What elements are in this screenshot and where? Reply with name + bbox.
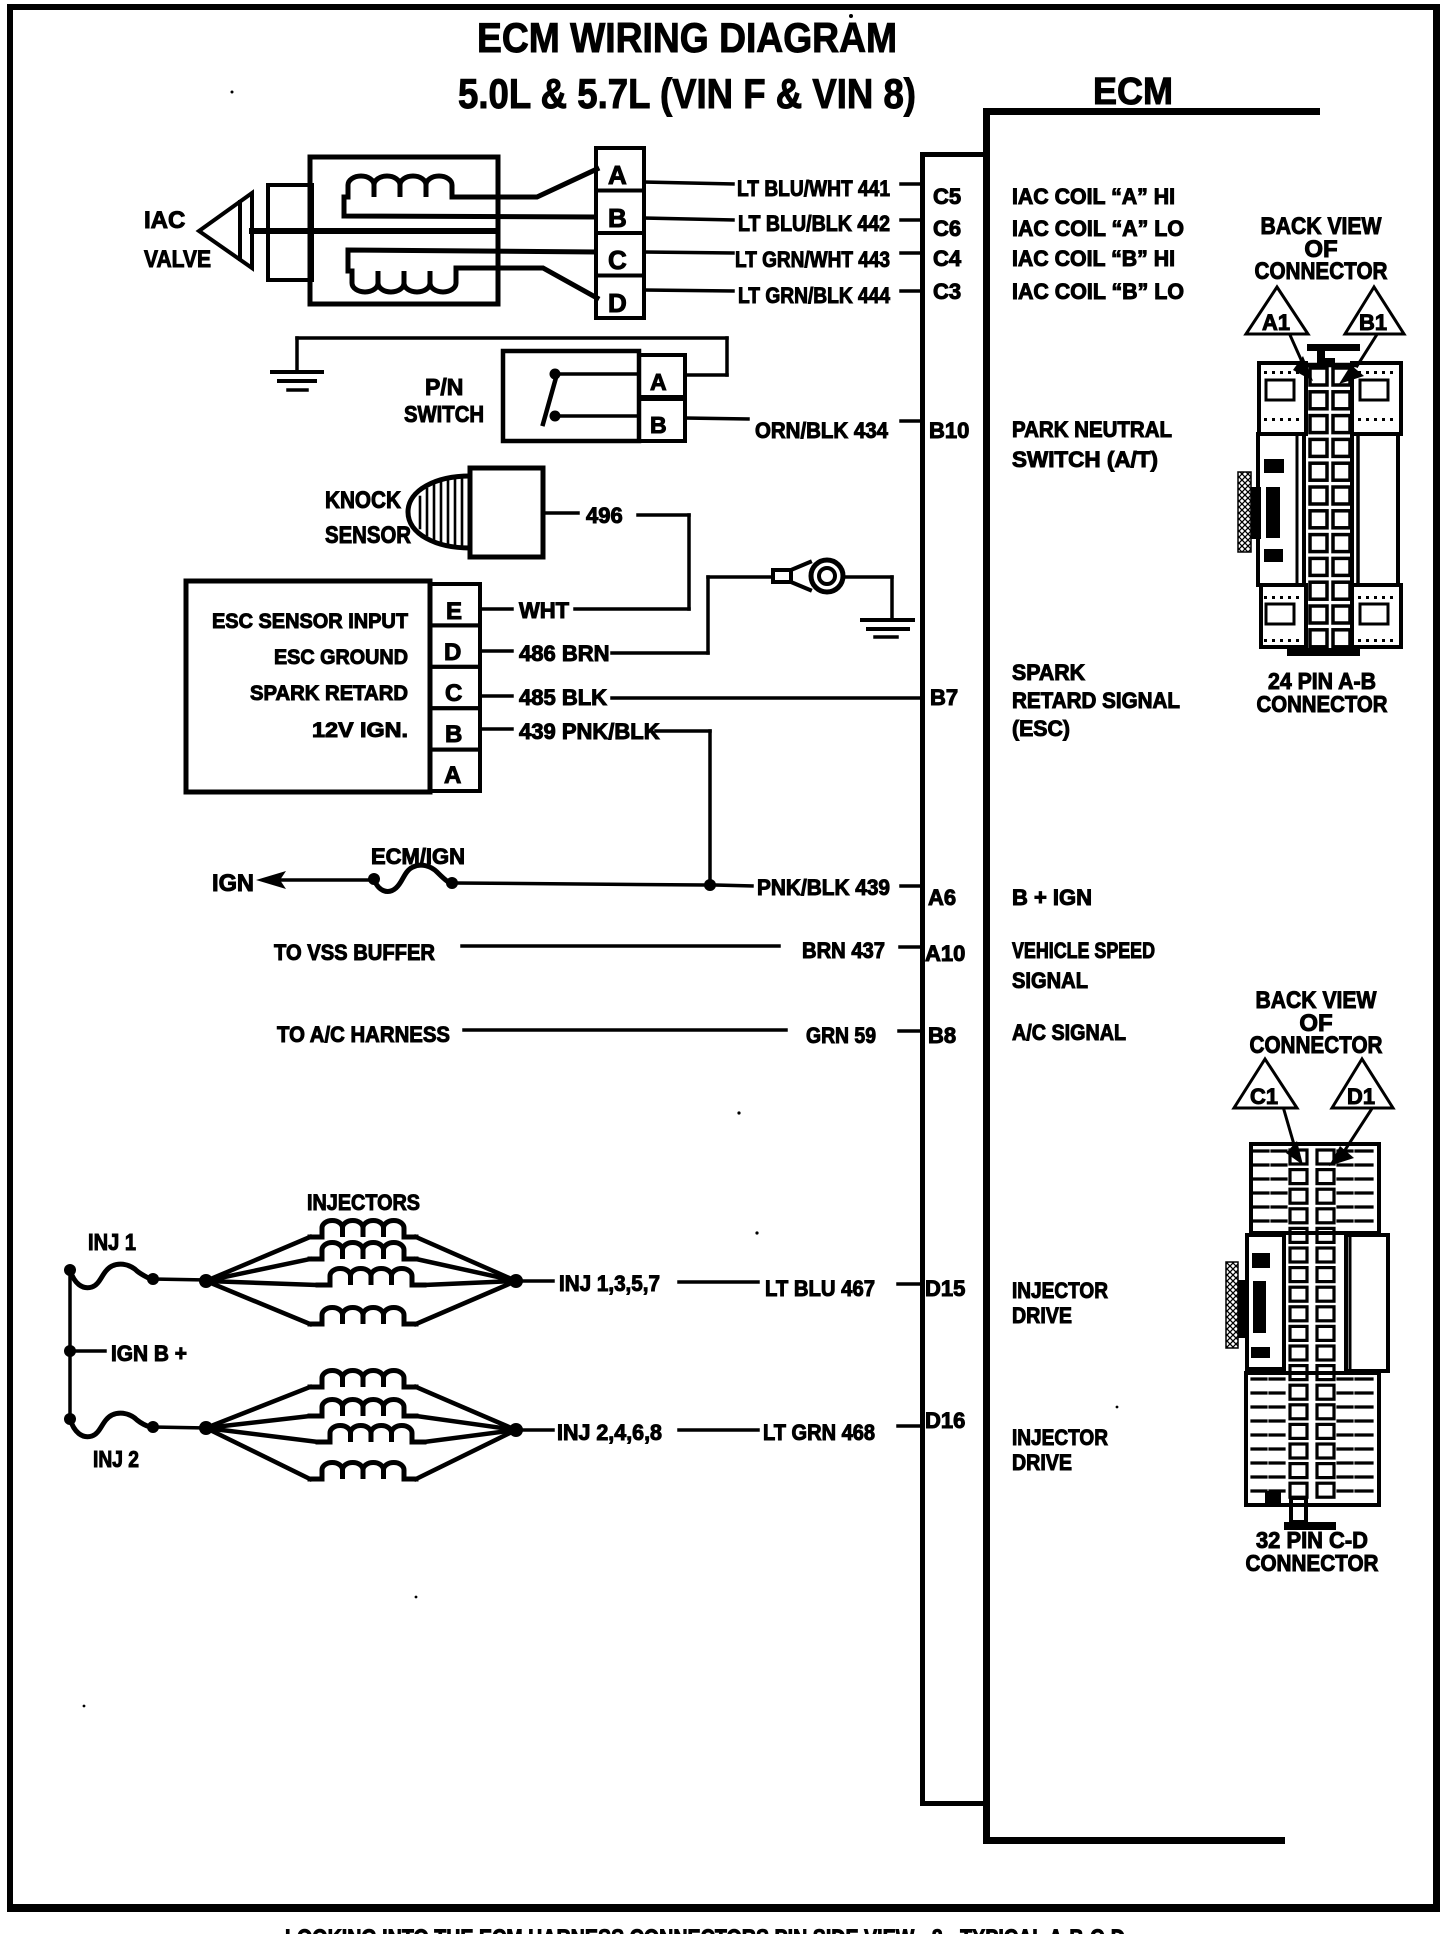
svg-text:A6: A6	[928, 885, 956, 910]
svg-text:ESC GROUND: ESC GROUND	[274, 646, 408, 669]
svg-text:C: C	[445, 680, 462, 707]
wire LT BLU/BLK 442 (pin B to ECM C6)	[644, 218, 733, 220]
svg-text:LT GRN 468: LT GRN 468	[763, 1420, 875, 1445]
svg-text:C4: C4	[933, 246, 962, 271]
wire 496 (knock sensor to ESC)	[543, 511, 578, 515]
svg-text:IAC COIL “A” HI: IAC COIL “A” HI	[1012, 184, 1175, 209]
ESC pin E	[430, 584, 480, 625]
svg-text:INJECTOR: INJECTOR	[1012, 1425, 1108, 1450]
IAC valve cone	[199, 193, 252, 268]
svg-text:12V IGN.: 12V IGN.	[312, 719, 408, 742]
svg-text:ORN/BLK 434: ORN/BLK 434	[755, 418, 889, 443]
wire PNK/BLK 439 to ECM A6	[455, 883, 704, 885]
arrow A1 to connector	[1290, 335, 1303, 364]
wire LT GRN/WHT 443 (pin C to ECM C4)	[644, 252, 733, 253]
ESC pin D	[430, 625, 480, 666]
svg-text:CONNECTOR: CONNECTOR	[1250, 1032, 1383, 1059]
svg-text:CONNECTOR: CONNECTOR	[1246, 1550, 1379, 1576]
svg-text:E: E	[446, 598, 462, 625]
svg-text:IAC COIL “A” LO: IAC COIL “A” LO	[1012, 216, 1184, 241]
svg-text:VEHICLE SPEED: VEHICLE SPEED	[1012, 938, 1155, 963]
svg-text:TO VSS BUFFER: TO VSS BUFFER	[274, 940, 435, 965]
svg-text:BRN 437: BRN 437	[802, 938, 885, 963]
32 pin C-D connector drawing	[1226, 1144, 1388, 1530]
svg-text:IAC COIL “B” LO: IAC COIL “B” LO	[1012, 279, 1184, 304]
svg-text:D16: D16	[925, 1408, 965, 1433]
svg-text:IAC COIL “B” HI: IAC COIL “B” HI	[1012, 246, 1175, 271]
svg-text:INJECTOR: INJECTOR	[1012, 1278, 1108, 1303]
svg-text:PNK/BLK 439: PNK/BLK 439	[757, 875, 890, 900]
wire ORN/BLK 434 (P/N switch B to ECM B10)	[685, 418, 748, 419]
svg-text:SPARK RETARD: SPARK RETARD	[250, 682, 408, 705]
svg-text:INJECTORS: INJECTORS	[307, 1190, 420, 1215]
svg-text:VALVE: VALVE	[144, 246, 211, 273]
svg-text:B1: B1	[1359, 310, 1387, 335]
svg-text:INJ 2,4,6,8: INJ 2,4,6,8	[557, 1420, 662, 1445]
svg-text:INJ 2: INJ 2	[93, 1446, 139, 1472]
svg-text:D1: D1	[1347, 1084, 1375, 1109]
svg-text:CONNECTOR: CONNECTOR	[1255, 258, 1388, 285]
svg-text:A: A	[608, 160, 627, 190]
node C1 triangle	[1234, 1059, 1297, 1108]
ESC pin C	[430, 667, 480, 708]
svg-text:SWITCH: SWITCH	[404, 401, 484, 427]
svg-text:B10: B10	[929, 418, 969, 443]
svg-text:DRIVE: DRIVE	[1012, 1450, 1072, 1475]
svg-text:SIGNAL: SIGNAL	[1012, 968, 1088, 993]
wire LT GRN/BLK 444 (pin D to ECM C3)	[644, 290, 733, 291]
wire INJ 1,3,5,7 / LT BLU 467 to ECM D15	[523, 1279, 553, 1283]
injector bank 1 (INJ 1,3,5,7)	[199, 1274, 213, 1288]
svg-text:C3: C3	[933, 279, 961, 304]
svg-text:C6: C6	[933, 216, 961, 241]
node D1 triangle	[1332, 1059, 1393, 1108]
svg-text:496: 496	[586, 503, 623, 528]
wire 439 PNK/BLK (ESC B to B+ ign)	[480, 727, 512, 731]
svg-text:DRIVE: DRIVE	[1012, 1303, 1072, 1328]
svg-text:SPARK: SPARK	[1012, 660, 1085, 685]
ground symbol (P/N switch)	[272, 370, 322, 374]
arrow D1 to connector	[1345, 1110, 1371, 1150]
svg-text:LT BLU/WHT 441: LT BLU/WHT 441	[737, 176, 890, 201]
svg-text:C: C	[608, 245, 627, 275]
svg-text:D15: D15	[925, 1276, 965, 1301]
svg-text:B: B	[445, 721, 462, 748]
svg-text:A1: A1	[1262, 310, 1290, 335]
svg-text:IGN: IGN	[212, 870, 254, 897]
svg-text:A: A	[444, 762, 461, 789]
24 pin A-B connector drawing	[1238, 344, 1401, 656]
svg-text:A/C SIGNAL: A/C SIGNAL	[1012, 1020, 1126, 1045]
svg-text:KNOCK: KNOCK	[325, 487, 402, 514]
ground symbol (knock/ESC)	[862, 618, 913, 622]
svg-text:WHT: WHT	[519, 598, 570, 623]
svg-text:B7: B7	[930, 685, 958, 710]
svg-text:CONNECTOR: CONNECTOR	[1257, 691, 1388, 717]
P/N switch pin A	[639, 355, 685, 397]
knock sensor dome	[408, 476, 470, 548]
arrow B1 to connector	[1357, 336, 1376, 366]
IAC valve shaft wire	[252, 228, 497, 234]
IAC connector pin D	[596, 276, 644, 319]
svg-text:C5: C5	[933, 184, 961, 209]
svg-text:5.0L & 5.7L (VIN F & VIN 8): 5.0L & 5.7L (VIN F & VIN 8)	[458, 70, 916, 117]
svg-text:439 PNK/BLK: 439 PNK/BLK	[519, 719, 660, 744]
svg-text:486 BRN: 486 BRN	[519, 641, 609, 666]
P/N switch pin B	[639, 399, 685, 441]
wire 485 BLK (ESC C to ECM B7)	[480, 694, 512, 698]
svg-text:SWITCH (A/T): SWITCH (A/T)	[1012, 447, 1158, 472]
IAC valve body box	[310, 157, 498, 304]
ECM pin column box	[920, 152, 986, 157]
P/N switch box	[503, 351, 639, 441]
svg-text:TO A/C HARNESS: TO A/C HARNESS	[277, 1022, 450, 1047]
svg-text:IAC: IAC	[144, 207, 185, 234]
svg-text:B: B	[650, 412, 667, 438]
svg-text:GRN 59: GRN 59	[806, 1023, 876, 1048]
svg-text:ECM WIRING DIAGRAM: ECM WIRING DIAGRAM	[477, 14, 897, 61]
svg-text:SENSOR: SENSOR	[325, 522, 411, 549]
svg-text:LT BLU 467: LT BLU 467	[765, 1276, 875, 1301]
knock sensor body	[470, 468, 543, 557]
svg-text:A: A	[650, 369, 667, 395]
svg-text:485 BLK: 485 BLK	[519, 685, 607, 710]
IAC valve flange	[268, 185, 312, 280]
wire ring terminal to ground	[843, 575, 892, 579]
svg-text:(ESC): (ESC)	[1012, 716, 1070, 741]
IAC connector pin A	[596, 148, 644, 191]
IAC connector pin C	[596, 233, 644, 276]
node B1 triangle	[1345, 287, 1404, 334]
svg-text:D: D	[608, 288, 627, 318]
IAC coil A (upper winding)	[348, 169, 597, 197]
svg-text:D: D	[444, 639, 461, 666]
ESC pin A	[430, 750, 480, 791]
svg-text:INJ 1: INJ 1	[88, 1229, 136, 1255]
ring terminal	[773, 570, 791, 582]
svg-text:RETARD SIGNAL: RETARD SIGNAL	[1012, 688, 1180, 713]
svg-text:ESC SENSOR INPUT: ESC SENSOR INPUT	[212, 610, 408, 633]
wire LT BLU/WHT 441 (pin A to ECM C5)	[644, 182, 733, 184]
IAC coil B (lower winding)	[352, 268, 597, 298]
ECM box outline	[986, 108, 1320, 115]
svg-text:LT GRN/WHT 443: LT GRN/WHT 443	[735, 247, 890, 272]
IAC connector pin B	[596, 191, 644, 234]
svg-text:B: B	[608, 203, 627, 233]
svg-text:LT GRN/BLK 444: LT GRN/BLK 444	[738, 283, 891, 308]
svg-text:P/N: P/N	[425, 374, 463, 400]
node A1 triangle	[1246, 287, 1308, 334]
injector bank 2 (INJ 2,4,6,8)	[199, 1421, 213, 1435]
wire WHT (ESC E)	[480, 607, 512, 611]
IGN B+ rail	[68, 1270, 72, 1419]
P/N switch contacts	[550, 369, 561, 380]
svg-text:ECM: ECM	[1093, 71, 1173, 113]
svg-text:C1: C1	[1250, 1084, 1278, 1109]
svg-text:A10: A10	[925, 941, 965, 966]
wire 486 BRN (ESC D to ground ring)	[480, 649, 512, 653]
svg-text:B + IGN: B + IGN	[1012, 885, 1092, 910]
svg-text:B8: B8	[928, 1023, 956, 1048]
svg-text:INJ 1,3,5,7: INJ 1,3,5,7	[559, 1271, 660, 1296]
wire INJ 2,4,6,8 / LT GRN 468 to ECM D16	[523, 1428, 553, 1432]
svg-text:LT BLU/BLK 442: LT BLU/BLK 442	[738, 211, 890, 236]
ESC pin B	[430, 708, 480, 749]
svg-text:PARK NEUTRAL: PARK NEUTRAL	[1012, 417, 1172, 442]
arrow C1 to connector	[1284, 1110, 1295, 1148]
ESC module box	[186, 581, 430, 792]
ground wire from P/N switch pin A	[685, 373, 727, 377]
svg-text:IGN B +: IGN B +	[111, 1341, 187, 1366]
svg-text:LOOKING INTO THE ECM HARNESS C: LOOKING INTO THE ECM HARNESS CONNECTORS …	[285, 1925, 1125, 1934]
